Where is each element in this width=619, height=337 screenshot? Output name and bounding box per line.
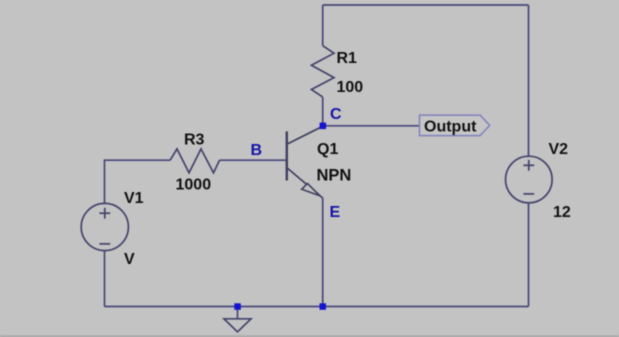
svg-text:1000: 1000 (176, 177, 212, 194)
svg-text:B: B (251, 142, 263, 159)
svg-text:100: 100 (337, 79, 364, 96)
voltage source V1 (81, 203, 128, 250)
wire emitter to bottom rail (322, 198, 324, 307)
wire node C to Output flag (323, 125, 420, 127)
svg-text:V: V (124, 251, 135, 268)
ground junction (234, 303, 241, 310)
wire right side bottom (V2 to bottom rail) (528, 203, 530, 307)
wire top rail (323, 4, 529, 6)
svg-text:R1: R1 (337, 50, 358, 67)
wire R1 top lead (322, 5, 324, 46)
svg-text:C: C (330, 106, 342, 123)
svg-text:Q1: Q1 (317, 141, 338, 158)
wire right side top (rail to V2) (528, 5, 530, 157)
resistor R3 (170, 149, 220, 173)
svg-text:V1: V1 (124, 190, 144, 207)
svg-text:12: 12 (553, 204, 571, 221)
output flag (420, 115, 490, 136)
svg-text:V2: V2 (549, 141, 569, 158)
node C junction (320, 123, 327, 130)
resistor R1 (311, 46, 334, 97)
wire ground stub (237, 307, 239, 319)
voltage source V2 (506, 156, 553, 203)
ground (224, 319, 251, 332)
wire R1 bottom lead to node C (322, 97, 324, 126)
wire V1 top to base wire corner (105, 160, 171, 203)
svg-text:R3: R3 (184, 132, 205, 149)
wire bottom rail (105, 306, 529, 308)
emitter junction (320, 303, 327, 310)
svg-text:E: E (330, 204, 341, 221)
wire R3 to base (220, 159, 287, 161)
svg-text:Output: Output (424, 118, 477, 135)
svg-text:NPN: NPN (317, 167, 352, 185)
wire left side (bottom rail to V1) (104, 251, 106, 307)
transistor Q1 (287, 126, 323, 198)
